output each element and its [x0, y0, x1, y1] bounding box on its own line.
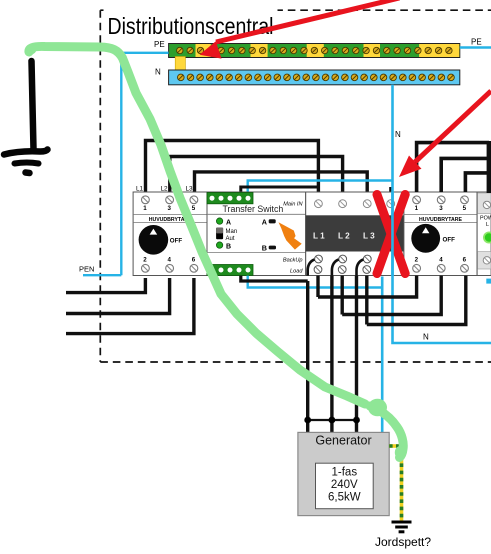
svg-text:Generator: Generator	[315, 434, 371, 448]
svg-text:5: 5	[192, 205, 196, 212]
wire backup elbow pole3	[357, 260, 364, 276]
svg-text:L2: L2	[161, 186, 169, 193]
svg-text:HUVUDBRYTARE: HUVUDBRYTARE	[419, 217, 462, 223]
svg-text:Main IN: Main IN	[283, 202, 303, 208]
wire staircase L1	[146, 141, 319, 193]
svg-text:OFF: OFF	[170, 238, 183, 245]
wire staircase L3	[195, 172, 368, 192]
svg-text:L3: L3	[186, 186, 194, 193]
wire out 6	[367, 276, 466, 325]
wire Load N cyan	[248, 276, 383, 288]
svg-text:6: 6	[192, 257, 196, 264]
wire cyan N vertical over X	[391, 192, 394, 276]
node green tail cap	[395, 446, 406, 459]
annotation red arrow 1	[200, 0, 400, 59]
wire generator 1	[306, 281, 309, 434]
svg-text:6,5kW: 6,5kW	[328, 492, 361, 504]
wire earth green tail	[370, 406, 403, 458]
wire module load stub 3	[365, 276, 368, 325]
svg-text:N: N	[423, 333, 429, 342]
pin screws breaker2 top	[413, 196, 469, 204]
svg-text:N: N	[395, 130, 401, 139]
knob left breaker	[139, 225, 169, 255]
wire trunk right	[487, 141, 491, 193]
svg-text:BackUp: BackUp	[283, 258, 303, 264]
node cyan stub meter	[486, 279, 491, 284]
node junction dot 1	[304, 417, 311, 424]
svg-text:L 3: L 3	[363, 232, 375, 241]
wire breaker2 L3 top	[465, 173, 489, 192]
svg-text:3: 3	[168, 205, 172, 212]
power meter P1 body	[477, 192, 491, 276]
svg-text:PE: PE	[471, 38, 482, 47]
ground symbol jordspett	[392, 522, 412, 532]
wire backup elbow pole2	[332, 260, 339, 276]
switch module 4-pole body	[306, 192, 404, 276]
generator G1 box	[298, 432, 389, 515]
wire module load stub 1	[316, 276, 319, 297]
terminal block BackUp/Load	[207, 265, 253, 276]
svg-text:A: A	[262, 217, 267, 226]
node green blob	[368, 399, 387, 417]
svg-text:PE: PE	[154, 40, 165, 49]
wire generator bridge	[308, 419, 357, 421]
wire feed L1 left	[66, 278, 145, 293]
ground hand-drawn bar2	[15, 163, 39, 164]
wire N pole down to generator cyan	[381, 277, 384, 434]
svg-text:Jordspett?: Jordspett?	[375, 535, 431, 549]
svg-text:POW: POW	[480, 216, 491, 222]
svg-text:L 2: L 2	[338, 232, 350, 241]
breaker HUVUDBRYTARE left body	[133, 186, 207, 276]
LED power	[483, 232, 491, 244]
pin screws module bottom pairs	[314, 255, 371, 273]
switch Man/Aut	[216, 228, 223, 240]
svg-text:PEN: PEN	[79, 265, 94, 274]
pointer orange	[279, 222, 302, 249]
wire feed L3 left	[66, 278, 194, 334]
annotation red arrow 2	[399, 91, 491, 177]
svg-text:1: 1	[143, 205, 147, 212]
wire jord striped vertical	[400, 446, 404, 521]
wire Load L to generator	[241, 276, 308, 281]
svg-text:2: 2	[143, 257, 147, 264]
LED B	[216, 242, 222, 248]
wire module load stub 2	[341, 276, 344, 315]
transfer switch U1 body	[207, 192, 306, 276]
wire N line lower cyan	[393, 181, 491, 344]
wire out 4	[342, 276, 441, 315]
pin screws breaker2 bottom	[413, 264, 469, 272]
PE-N link	[175, 57, 185, 71]
svg-text:6: 6	[463, 257, 467, 264]
wire staircase L2	[170, 157, 343, 193]
pin screws breaker1 top	[142, 196, 198, 204]
svg-text:Transfer Switch: Transfer Switch	[223, 204, 284, 214]
wire backup elbow pole1	[308, 260, 315, 276]
wire jord striped horizontal	[389, 444, 401, 448]
boundary dashed box	[100, 10, 491, 362]
svg-text:L 1: L 1	[313, 232, 325, 241]
wire cyan Main IN N	[248, 181, 393, 193]
wire generator 2	[330, 276, 333, 434]
svg-text:L: L	[486, 222, 489, 228]
ground hand-drawn bar1	[4, 150, 48, 155]
wire Main IN pole4 overdraw	[241, 186, 319, 189]
wire cyan PE right	[460, 46, 491, 48]
node junction dot 2	[329, 417, 336, 424]
wire earth green hand-drawn	[29, 46, 365, 404]
wire breaker2 L2 top	[441, 158, 489, 192]
wire cyan PEN stub	[83, 274, 121, 276]
svg-text:240V: 240V	[331, 479, 358, 491]
node junction dot 3	[353, 417, 360, 424]
ground hand-drawn bar3	[26, 169, 30, 176]
wire N pole4 top stub	[389, 187, 392, 192]
annotation red X	[377, 195, 405, 274]
svg-text:N: N	[155, 68, 161, 77]
svg-text:OFF: OFF	[443, 237, 456, 244]
svg-text:B: B	[262, 243, 267, 252]
breaker HUVUDBRYTARE right body	[404, 192, 477, 276]
svg-text:5: 5	[463, 205, 467, 212]
wire generator 3	[355, 276, 358, 434]
svg-text:4: 4	[439, 257, 443, 264]
svg-text:B: B	[226, 243, 231, 250]
LED A	[216, 218, 222, 224]
svg-text:Man: Man	[226, 229, 238, 235]
wire cyan PE left	[121, 53, 168, 275]
node green start blob	[27, 45, 37, 55]
pin screws breaker1 bottom	[142, 264, 198, 272]
svg-text:Aut: Aut	[226, 236, 235, 242]
svg-text:3: 3	[439, 205, 443, 212]
terminal block Main IN	[207, 193, 253, 204]
wire out 2	[318, 276, 417, 297]
knob right breaker	[411, 224, 440, 253]
svg-text:1: 1	[415, 205, 419, 212]
svg-text:A: A	[226, 219, 231, 226]
N bus bar	[155, 68, 460, 85]
PE bus bar	[154, 38, 482, 58]
svg-text:L1: L1	[136, 186, 144, 193]
svg-text:1-fas: 1-fas	[332, 467, 358, 479]
wire feed L2 left	[66, 278, 170, 314]
svg-text:Load: Load	[290, 269, 303, 275]
title Distributionscentral	[104, 3, 278, 16]
pin screw meter bottom	[483, 257, 490, 264]
svg-text:4: 4	[168, 257, 172, 264]
pin screw meter top	[483, 201, 490, 208]
svg-text:2: 2	[415, 257, 419, 264]
electrode hand-drawn stem	[32, 61, 34, 149]
wire Main IN pole4	[241, 187, 319, 192]
wire cyan N drop from N bar	[391, 85, 394, 181]
wire breaker2 L1 top	[417, 143, 489, 192]
pin screws module top	[315, 200, 395, 208]
